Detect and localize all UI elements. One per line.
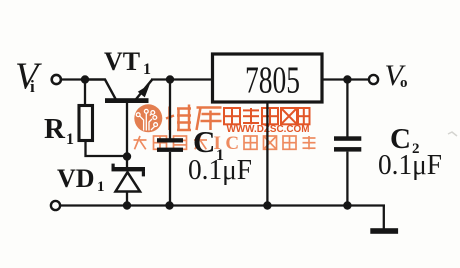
wire collector to 7805 xyxy=(151,78,213,80)
svg-text:0.1μF: 0.1μF xyxy=(378,150,442,181)
label VD1 xyxy=(57,164,105,195)
node C junction (C2 top) xyxy=(343,75,351,83)
junction VD1 bottom xyxy=(123,201,131,209)
junction 7805 gnd bottom xyxy=(263,201,271,209)
label C2 xyxy=(390,123,420,157)
svg-text:V: V xyxy=(15,56,42,98)
regulator U1 7805 box xyxy=(213,54,323,102)
label R1 xyxy=(44,113,74,148)
watermark text 全球最大IC采购网站 xyxy=(134,133,316,154)
svg-text:i: i xyxy=(30,77,35,96)
wire 7805 ground lead xyxy=(266,102,268,206)
svg-text:R: R xyxy=(44,113,66,145)
junction C2 bottom xyxy=(343,201,351,209)
label Vo xyxy=(385,59,408,92)
svg-text:0.1μF: 0.1μF xyxy=(188,155,252,186)
label C1 xyxy=(193,124,224,164)
svg-text:1: 1 xyxy=(97,179,105,195)
ground xyxy=(370,206,398,234)
svg-text:VT: VT xyxy=(104,47,140,76)
svg-text:1: 1 xyxy=(143,61,151,78)
label VT1 xyxy=(104,47,151,78)
node B junction (C1 top) xyxy=(166,75,174,83)
watermark text 维库 xyxy=(166,105,222,131)
node R1/VD1 junction xyxy=(123,152,131,160)
transistor VT1 xyxy=(85,79,153,167)
resistor R1 xyxy=(79,106,93,141)
svg-text:VD: VD xyxy=(57,164,95,193)
node A junction xyxy=(81,75,89,83)
zener diode VD1 xyxy=(112,164,146,206)
wire node A down to R1 xyxy=(84,80,86,107)
wire input to node A xyxy=(62,78,87,80)
capacitor C1 xyxy=(157,80,183,206)
junction C1 bottom xyxy=(165,201,173,209)
svg-text:7805: 7805 xyxy=(245,60,300,102)
watermark text 电子市场网 xyxy=(224,108,310,124)
watermark logo circle xyxy=(134,104,162,132)
bottom rail terminal xyxy=(51,201,60,210)
svg-text:o: o xyxy=(400,75,408,91)
capacitor C2 xyxy=(334,80,361,206)
scan artifact mark xyxy=(448,132,457,136)
wire R1 bottom to diode node xyxy=(86,141,126,157)
input terminal xyxy=(52,75,61,84)
svg-text:1: 1 xyxy=(66,131,74,148)
svg-text:C: C xyxy=(193,124,215,159)
label Vi xyxy=(15,56,42,98)
output terminal xyxy=(369,75,378,84)
wire bottom rail xyxy=(61,204,386,206)
wire 7805 out to Vo xyxy=(322,78,369,80)
